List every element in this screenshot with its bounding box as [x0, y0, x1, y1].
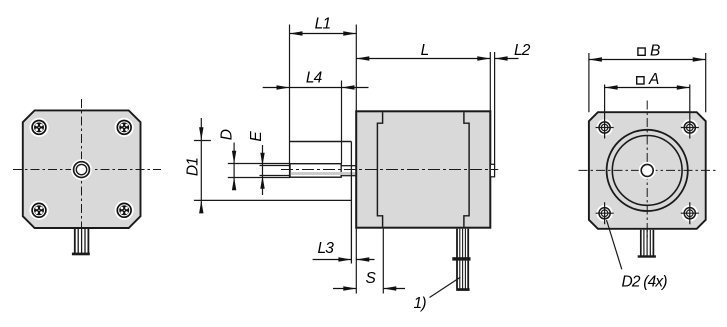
dimension L	[356, 58, 490, 60]
thread line (gray band on shaft)	[291, 172, 356, 175]
leader D2	[607, 220, 622, 269]
D diameter extension lines	[228, 164, 290, 178]
dimension L1	[290, 33, 357, 35]
center shaft circles	[71, 159, 92, 180]
wire bundle (right view)	[638, 230, 656, 258]
dimension squareA	[605, 87, 690, 89]
vertical centerline	[646, 101, 648, 241]
dimension D1	[194, 118, 211, 211]
dimension D	[233, 143, 235, 191]
dimension E	[262, 145, 264, 195]
front end-cap step line	[377, 112, 382, 226]
svg-text:L4: L4	[306, 69, 323, 86]
extension lines squareB	[589, 53, 706, 112]
extension line at shaft end (L1/L4 left)	[289, 25, 291, 178]
dimension L2	[495, 58, 519, 60]
svg-text:L1: L1	[315, 16, 331, 33]
dimension S	[333, 288, 405, 290]
cable band	[452, 257, 470, 260]
hole H1 (top-left)	[596, 117, 614, 139]
svg-text:A: A	[648, 71, 659, 88]
svg-text:B: B	[650, 43, 660, 60]
svg-text:D2 (4x): D2 (4x)	[622, 273, 668, 290]
extension line S right (x=383.3)	[382, 229, 384, 294]
svg-text:D: D	[219, 129, 236, 140]
dimension L4	[263, 87, 369, 89]
screw S2 (top-right)	[115, 118, 134, 137]
svg-text:E: E	[248, 131, 265, 142]
screw S1 (top-left)	[29, 118, 48, 137]
wire bundle (middle view)	[456, 229, 469, 291]
horizontal centerline	[579, 169, 717, 171]
screw S4 (bottom-right)	[115, 201, 134, 220]
extension line L right (x=490.3)	[489, 52, 491, 111]
svg-text:L3: L3	[317, 240, 334, 257]
pilot circle (inner)	[612, 136, 682, 206]
shaft section D	[290, 164, 341, 178]
leader 1)	[430, 277, 461, 297]
screw S3 (bottom-left)	[29, 201, 48, 220]
extension line at motor face (x=356.3)	[355, 25, 357, 294]
center hole	[639, 162, 656, 179]
extension line L2 right (x=494.6)	[494, 52, 496, 164]
svg-text:S: S	[366, 270, 377, 287]
front plate (chamfered square)	[23, 110, 141, 228]
extension lines squareA (from holes up)	[605, 85, 690, 117]
hole H2 (top-right)	[681, 117, 699, 139]
svg-text:L: L	[421, 42, 429, 59]
shaft section E	[341, 166, 356, 176]
motor body	[356, 111, 490, 227]
dimension squareB	[589, 59, 706, 61]
horizontal centerline	[13, 169, 161, 171]
rear end-cap step line	[464, 112, 469, 226]
rear boss	[490, 164, 494, 177]
rear plate (chamfered square)	[589, 112, 706, 229]
vertical centerline	[81, 99, 83, 242]
hole H4 (bottom-right)	[681, 202, 699, 224]
svg-text:D1: D1	[185, 158, 202, 176]
pilot circle (outer)	[607, 130, 688, 211]
svg-text:L2: L2	[514, 42, 531, 59]
extension line L4 right	[341, 81, 343, 164]
horizontal centerline (axis)	[281, 169, 498, 171]
dimension L3	[313, 259, 375, 261]
E diameter extension lines	[260, 166, 291, 176]
wire bundle (left view)	[72, 229, 90, 255]
svg-text:1): 1)	[414, 295, 427, 312]
hub front face line V3	[350, 142, 352, 264]
hole H3 (bottom-left)	[596, 202, 614, 224]
D1 front hub cylinder	[194, 142, 352, 201]
